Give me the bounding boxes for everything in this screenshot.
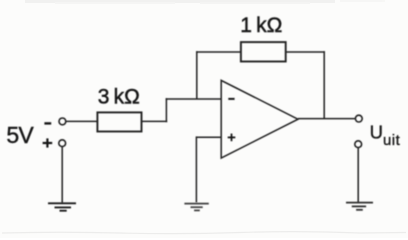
wire R 1k to right corner — [286, 51, 325, 53]
wire noninverting to ground — [195, 136, 197, 202]
resistor R 3k box — [97, 112, 141, 131]
wire V- to R 3k — [66, 120, 97, 122]
wire V+ down to ground — [61, 147, 63, 204]
polarity plus sign at V+ — [43, 138, 53, 147]
terminal Uuit top — [355, 115, 362, 122]
terminal Uuit bottom — [355, 141, 362, 148]
terminal V+ — [59, 140, 66, 147]
svg-text:3 kΩ: 3 kΩ — [98, 86, 140, 109]
wire feedback top left — [196, 51, 241, 53]
wire Uuit bottom to ground — [357, 148, 359, 203]
ground left — [48, 203, 76, 210]
svg-text:1 kΩ: 1 kΩ — [240, 14, 282, 37]
wire node to feedback up — [196, 51, 198, 99]
wire R 3k to jog — [142, 120, 168, 122]
scan smudge top edge — [25, 0, 385, 4]
wire jog vertical — [165, 98, 167, 122]
ground middle — [184, 204, 208, 211]
wire opamp noninverting input — [196, 136, 221, 138]
op-amp U1 triangle — [221, 80, 298, 158]
polarity minus sign at V- — [44, 122, 51, 124]
wire feedback down to output — [323, 51, 325, 118]
svg-text:5V: 5V — [6, 122, 34, 148]
opamp minus pin label — [228, 98, 234, 100]
ground right — [346, 203, 373, 210]
resistor R 1k box — [241, 42, 286, 61]
wire opamp output — [298, 118, 355, 120]
opamp plus pin label — [228, 134, 236, 142]
wire to opamp inverting input — [166, 98, 222, 100]
scan line bottom edge — [2, 232, 406, 234]
terminal V- — [59, 118, 66, 125]
